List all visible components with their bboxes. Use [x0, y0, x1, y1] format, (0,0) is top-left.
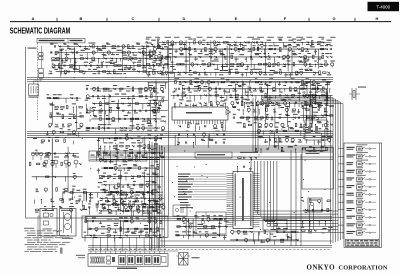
FM IF amplifier section — [146, 39, 335, 78]
wires power box to display — [93, 238, 159, 252]
lamp driver box — [308, 198, 322, 212]
horizontal bus wires (IF signal) — [27, 77, 333, 81]
dashed wire under schematic — [88, 249, 330, 251]
nested wire elbows (CPU to keyboard) — [255, 150, 339, 246]
resistor array section — [96, 164, 164, 216]
below-CPU wiring section — [230, 228, 299, 245]
keyboard column label strip — [346, 239, 380, 246]
trunk section left of MPX — [147, 80, 168, 127]
stereo MPX decoder section — [171, 78, 331, 109]
CPU lower pin labels — [180, 202, 193, 208]
front-end RF amplifier section — [49, 43, 166, 77]
svg-text:T-4000: T-4000 — [376, 5, 390, 10]
IF detector IC U201 — [172, 104, 228, 125]
ONKYO CORPORATION logo — [307, 264, 388, 272]
vertical wire bundle right (to key switches) — [262, 96, 343, 244]
relay driver box — [263, 220, 287, 231]
keyboard switch column S801-S812 — [338, 143, 382, 248]
left lower control section — [29, 137, 82, 213]
antenna label — [28, 48, 37, 49]
wire junction dots — [51, 49, 328, 240]
wire antenna to coil — [34, 78, 42, 84]
svg-text:C: C — [132, 16, 135, 21]
horizontal bus wires (supply rails) — [85, 217, 332, 221]
pre-power components — [62, 189, 158, 207]
svg-text:A: A — [32, 16, 35, 21]
oscillator section right — [300, 83, 334, 133]
connector J1 (AM ANT) — [39, 53, 43, 60]
model label T-4000 box — [368, 2, 400, 11]
svg-text:G: G — [332, 16, 335, 21]
vertical wire bundle left of CPU — [150, 141, 165, 250]
svg-text:SCHEMATIC DIAGRAM: SCHEMATIC DIAGRAM — [10, 27, 71, 36]
svg-text:CORPORATION: CORPORATION — [339, 265, 388, 272]
detector meter section — [255, 127, 332, 153]
switch bank S401 — [89, 151, 147, 161]
crystal oscillator label — [240, 152, 258, 153]
column tick marks — [57, 18, 355, 22]
left boundary wire — [26, 47, 86, 218]
column letters A-H — [32, 16, 379, 21]
IC U601 — [303, 120, 329, 140]
quadrature detector section — [232, 99, 329, 131]
vertical wires to decoder — [253, 98, 258, 152]
transistor row Q401-Q404 — [44, 157, 79, 169]
NOTES text block — [24, 228, 70, 252]
title SCHEMATIC DIAGRAM — [10, 27, 71, 36]
horizontal bus wires (data lines) — [90, 146, 333, 159]
antenna coil T101 — [29, 84, 39, 98]
IF filter section — [85, 85, 166, 134]
bottom left tiny label — [60, 248, 63, 254]
oscillator sub-box — [173, 205, 187, 216]
muting control section — [96, 134, 164, 164]
keyboard matrix box — [302, 148, 334, 190]
svg-text:ONKYO: ONKYO — [307, 264, 336, 272]
display driver section — [301, 197, 333, 233]
AM converter section — [46, 94, 83, 137]
buffer amplifier section — [175, 131, 226, 148]
op-amp symbols — [90, 44, 322, 114]
display pin header wires — [88, 249, 178, 254]
crystal X801 — [349, 87, 366, 101]
reset circuit box — [196, 212, 226, 234]
IC U301 label box — [195, 152, 232, 158]
microcontroller IC801 — [227, 172, 260, 229]
CPU top components — [237, 157, 257, 173]
indicator star symbol — [177, 253, 191, 266]
audio output section — [83, 203, 165, 215]
components below U201 — [179, 122, 226, 131]
CPU pin name labels — [178, 174, 227, 201]
connector J2 (FM ANT) — [39, 69, 43, 79]
tuner board title box — [37, 38, 85, 43]
transistor row lower left — [31, 152, 51, 160]
fluorescent display unit — [88, 254, 168, 267]
svg-text:F: F — [284, 16, 287, 21]
column ruler line — [10, 21, 391, 23]
power supply regulator section — [84, 217, 165, 241]
svg-text:B: B — [80, 16, 83, 21]
svg-text:H: H — [376, 16, 379, 21]
svg-text:D: D — [183, 16, 186, 21]
wire antenna feed — [38, 43, 42, 120]
star symbol label — [192, 257, 200, 258]
vertical wire trunk x168 — [167, 44, 169, 216]
AC inlet block — [38, 209, 57, 244]
power supply box — [82, 216, 168, 237]
horizontal bus wires (control) — [27, 131, 333, 137]
top margin part-number labels — [146, 36, 336, 39]
schematic bottom border wires — [88, 241, 332, 247]
display unit label — [117, 268, 137, 269]
svg-text:E: E — [235, 16, 238, 21]
power transformer T901 — [60, 209, 77, 239]
power rectifier section — [175, 215, 228, 240]
display left designator — [76, 255, 85, 258]
